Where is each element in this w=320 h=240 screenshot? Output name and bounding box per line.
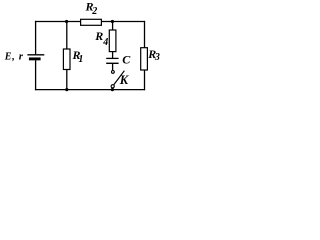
junction dot top R4 xyxy=(111,20,114,23)
resistor R3 box xyxy=(141,48,148,70)
battery E bottom plate xyxy=(29,57,41,60)
svg-text:E: E xyxy=(4,51,12,62)
wire top horizontal xyxy=(35,21,145,23)
wire bottom horizontal xyxy=(35,89,145,91)
svg-text:,: , xyxy=(11,51,15,62)
junction dot bottom R1 xyxy=(65,88,68,91)
wire R4 branch upper xyxy=(112,22,114,59)
svg-text:2: 2 xyxy=(91,6,97,17)
wire R1 branch xyxy=(66,22,68,90)
capacitor C top plate xyxy=(106,57,118,59)
svg-text:C: C xyxy=(122,53,131,67)
svg-text:r: r xyxy=(19,51,24,63)
switch K moving contact circle xyxy=(111,85,114,88)
wire capacitor to switch contact xyxy=(112,63,114,70)
svg-text:K: K xyxy=(119,73,130,87)
svg-text:4: 4 xyxy=(102,37,108,48)
resistor R2 box xyxy=(81,19,102,25)
wire left battery branch lower xyxy=(35,60,37,90)
svg-text:R: R xyxy=(94,29,103,43)
wire left battery branch upper xyxy=(35,21,37,55)
junction dot bottom switch xyxy=(111,88,114,91)
capacitor C bottom plate xyxy=(106,62,118,64)
wire right R3 branch xyxy=(144,21,146,90)
switch K fixed contact circle xyxy=(112,71,115,74)
svg-text:1: 1 xyxy=(78,54,83,65)
battery E top plate xyxy=(27,54,44,56)
resistor R1 box xyxy=(63,49,70,70)
switch K lever xyxy=(114,71,125,85)
junction dot top R1 xyxy=(65,20,68,23)
svg-text:3: 3 xyxy=(154,52,160,63)
resistor R4 box xyxy=(109,30,116,52)
